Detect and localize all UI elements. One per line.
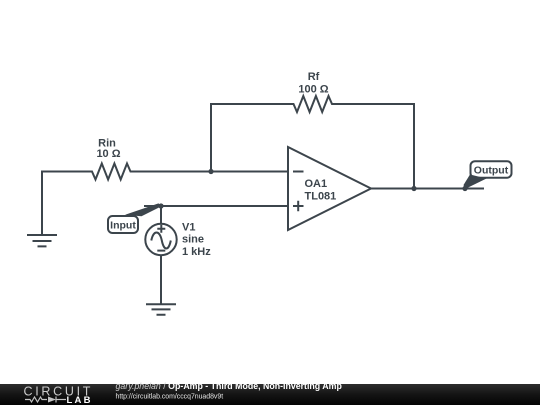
svg-text:100 Ω: 100 Ω xyxy=(298,84,328,96)
svg-text:gary.phelan / Op-Amp - Third M: gary.phelan / Op-Amp - Third Mode, Non-I… xyxy=(116,381,343,391)
svg-text:http://circuitlab.com/cccq7nua: http://circuitlab.com/cccq7nuad8v9t xyxy=(116,393,224,400)
svg-text:LAB: LAB xyxy=(67,395,93,405)
svg-text:OA1: OA1 xyxy=(305,178,328,190)
svg-text:Input: Input xyxy=(110,220,136,232)
svg-text:10 Ω: 10 Ω xyxy=(96,148,120,160)
svg-text:Rf: Rf xyxy=(308,71,320,83)
svg-text:TL081: TL081 xyxy=(305,190,337,202)
svg-text:1 kHz: 1 kHz xyxy=(182,246,211,258)
svg-text:Output: Output xyxy=(474,165,509,177)
svg-text:V1: V1 xyxy=(182,222,195,234)
svg-text:sine: sine xyxy=(182,234,204,246)
